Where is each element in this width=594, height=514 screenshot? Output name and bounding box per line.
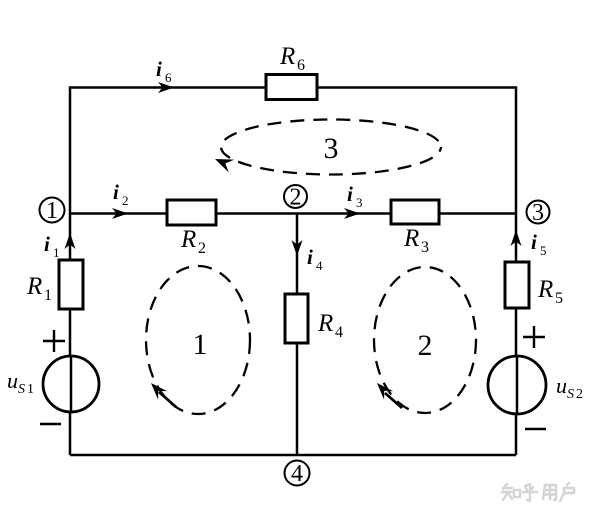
wire right: node3 down to bottom-right corner: [515, 214, 518, 456]
svg-text:R: R: [26, 273, 42, 300]
svg-text:i: i: [347, 182, 353, 206]
svg-text:2: 2: [418, 329, 433, 362]
svg-text:R: R: [537, 276, 553, 303]
svg-text:1: 1: [46, 198, 58, 224]
watermark zhihu user: [502, 483, 574, 501]
wire middle vertical: node2 to node4: [296, 214, 299, 456]
svg-text:u: u: [7, 368, 18, 393]
voltage source uS2: [488, 356, 546, 414]
svg-text:S: S: [567, 387, 574, 402]
resistor R2: [167, 200, 216, 225]
svg-text:5: 5: [555, 290, 563, 307]
svg-text:2: 2: [576, 387, 583, 402]
svg-text:i: i: [307, 245, 313, 269]
wire left: node1 down to bottom-left corner: [69, 214, 72, 456]
current arrow i3: [344, 208, 360, 219]
svg-text:R: R: [180, 226, 196, 253]
node 4: [285, 461, 310, 486]
node 3: [527, 201, 550, 224]
svg-text:i: i: [531, 230, 537, 254]
current arrow i2: [112, 208, 128, 219]
svg-text:3: 3: [421, 239, 429, 256]
svg-text:2: 2: [198, 240, 206, 257]
resistor R5: [505, 262, 529, 308]
svg-text:4: 4: [316, 258, 323, 273]
svg-text:3: 3: [356, 195, 363, 210]
svg-text:i: i: [113, 180, 119, 204]
svg-text:1: 1: [27, 382, 34, 397]
svg-text:1: 1: [44, 287, 52, 304]
plus sign uS2: [523, 326, 545, 348]
svg-text:4: 4: [335, 324, 343, 341]
wire bottom: node4 row: [70, 454, 516, 457]
svg-text:3: 3: [532, 200, 544, 226]
svg-text:i: i: [156, 57, 162, 81]
mesh loop 1 dashed ellipse: [146, 266, 250, 414]
voltage source uS1: [43, 356, 99, 412]
plus sign uS1: [43, 330, 65, 352]
svg-text:5: 5: [540, 243, 547, 258]
svg-text:S: S: [18, 382, 25, 397]
svg-text:u: u: [556, 373, 567, 398]
mesh loop 2 dashed ellipse: [374, 267, 476, 413]
current arrow i1 (up): [65, 233, 76, 249]
svg-text:3: 3: [324, 132, 339, 165]
wire middle horizontal: node1 to node3: [70, 212, 516, 215]
resistor R4: [285, 294, 308, 343]
resistor R6: [266, 75, 317, 100]
svg-text:1: 1: [53, 245, 60, 260]
svg-text:4: 4: [291, 461, 303, 487]
svg-text:R: R: [279, 43, 295, 70]
resistor R3: [391, 200, 439, 224]
wire top: node1 corner to node3 corner: [70, 88, 516, 214]
mesh loop 3 dashed ellipse: [215, 120, 441, 175]
node 2: [284, 185, 307, 208]
minus sign uS1: [40, 423, 61, 426]
node 1: [40, 198, 65, 223]
current arrow i4 (down): [292, 240, 303, 256]
current arrow i5 (up): [511, 230, 522, 246]
svg-text:2: 2: [290, 185, 302, 211]
svg-text:1: 1: [193, 328, 208, 361]
svg-text:6: 6: [165, 70, 172, 85]
current arrow i6: [158, 82, 174, 93]
svg-text:6: 6: [297, 57, 305, 74]
resistor R1: [59, 260, 83, 309]
minus sign uS2: [525, 428, 546, 431]
svg-text:R: R: [403, 225, 419, 252]
svg-text:R: R: [317, 310, 333, 337]
svg-text:2: 2: [122, 193, 129, 208]
svg-text:i: i: [44, 232, 50, 256]
